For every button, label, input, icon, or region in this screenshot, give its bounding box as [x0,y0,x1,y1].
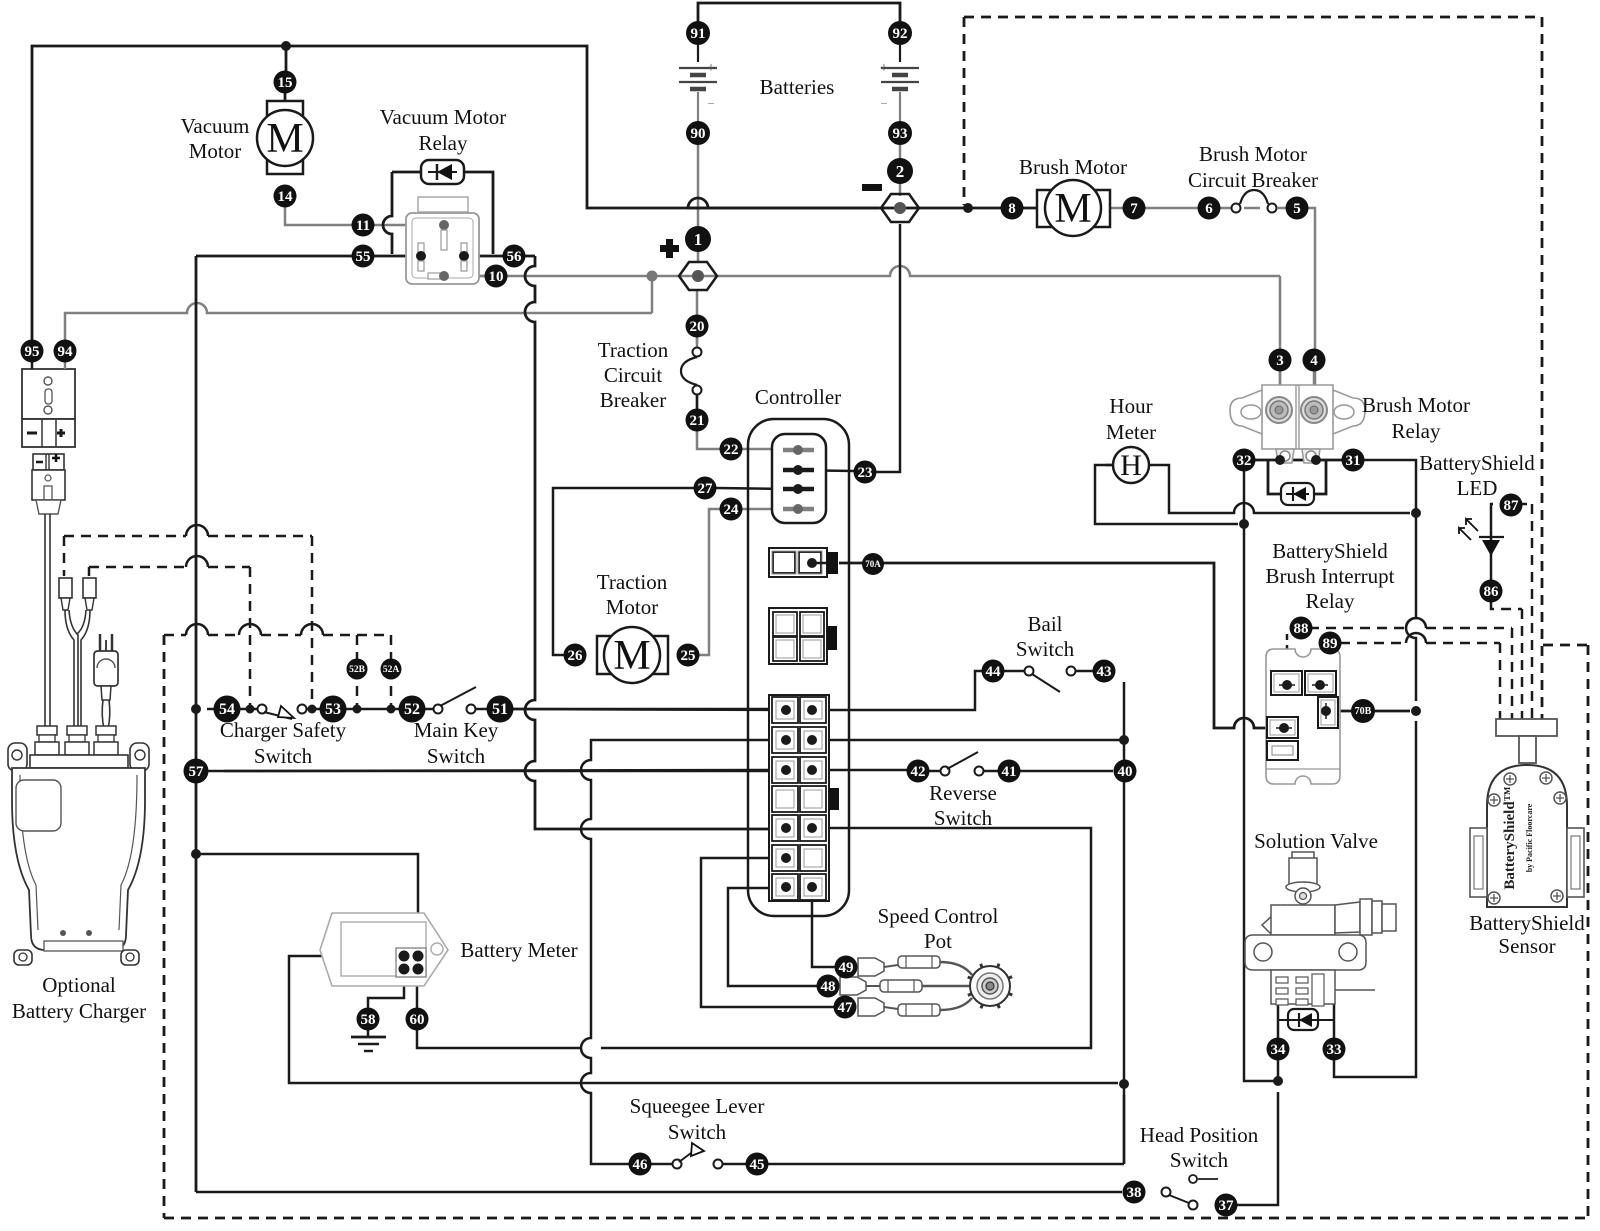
node 23 [854,461,877,484]
svg-text:34: 34 [1271,1042,1287,1058]
svg-text:41: 41 [1002,764,1017,780]
svg-text:92: 92 [893,26,908,42]
node 8 [1001,197,1024,220]
wire LED anode cathode [1490,512,1493,580]
wire traction motor 26 to 27 line [553,488,694,655]
svg-text:Charger Safety: Charger Safety [220,718,347,742]
wire bail riser 43-40-45 [1123,682,1126,1164]
svg-text:Brush Interrupt: Brush Interrupt [1266,564,1395,588]
hexagon connector negative node 2 [881,194,919,222]
squeegee lever switch [673,1160,682,1169]
charger right ear [130,743,149,771]
wire controller pin4 to 24 to 25 [699,509,786,655]
wire riser to head position 38 [1123,1095,1126,1164]
wire dashed relay 89 to sensor [1340,642,1406,645]
node 57 [184,759,209,784]
node 70A [862,553,884,575]
junction hour meter 32 riser [1239,519,1249,529]
junction 54 takeoff [191,704,201,714]
svg-text:5: 5 [1293,201,1301,217]
svg-text:40: 40 [1118,764,1133,780]
controller 2x7 connector cells [772,697,798,723]
speed pot wires to pot [940,962,972,975]
node 95 [21,340,44,363]
wire nodes 3,4 to brush relay terminals [1279,371,1282,398]
wire node 55 bus down the left side [195,256,198,1192]
wire riser segment 70B to solution valve 33 [1334,721,1416,1077]
wire controller row7R to 49 [812,888,835,967]
wire controller row6 to 47 [701,858,834,1007]
node 3 [1269,349,1292,372]
wire node 55 to relay pin [196,255,421,258]
wire reverse switch segments [929,770,941,773]
battery meter connector [396,948,426,977]
wire dashed charger D2 drop to safety switch [249,567,252,706]
wire charger safety switch row [207,708,262,711]
wire node 5 breaker [1244,207,1260,210]
charger terminal Y cable [65,610,74,729]
controller pin row 1 [783,448,814,453]
svg-text:+: + [707,60,715,76]
solution valve drawing [1292,852,1314,859]
svg-text:49: 49 [839,960,854,976]
battery 2 symbol [899,44,901,62]
svg-text:10: 10 [489,269,504,285]
brush relay pin dots [1275,455,1285,465]
wire node 31 to riser down to 33 [1364,460,1416,701]
svg-text:BatteryShield: BatteryShield [1419,451,1535,475]
charger plug [33,454,64,470]
node 20 [686,315,709,338]
charger body [12,768,145,950]
charger 94 95 stubs [31,362,34,369]
svg-text:Pot: Pot [924,929,952,953]
svg-text:54: 54 [219,701,235,718]
svg-text:BatteryShield: BatteryShield [1272,539,1388,563]
svg-text:37: 37 [1219,1198,1235,1214]
svg-text:Optional: Optional [42,973,116,997]
junction 31 riser hour meter [1411,508,1421,518]
wire 21-20 connectors [696,394,699,409]
svg-text:Battery Charger: Battery Charger [12,999,146,1023]
wire solution valve 33 wire [1333,1004,1336,1060]
svg-text:Traction: Traction [598,338,669,362]
node 10 [485,265,508,288]
svg-text:Motor: Motor [606,595,659,619]
svg-text:M: M [266,116,303,162]
svg-text:23: 23 [858,465,873,481]
svg-text:by Pacific Floorcare: by Pacific Floorcare [1525,803,1534,872]
wire node 32 to relay pins [1255,459,1280,462]
wire dashed charger D1 horizontal [64,535,186,538]
wire dashed jog from box to right edge [1543,644,1588,647]
node 93 [888,121,912,145]
wire battery top loop 91 92 [698,3,900,22]
node 15 [274,71,297,94]
node 55 [352,245,375,268]
node 37 [1215,1194,1238,1217]
hexagon connector positive node 1 [679,262,717,290]
wire hexagon1 down through traction breaker to node 22 [696,290,699,352]
speed pot terminal 48 [840,977,866,995]
node 22 [720,438,743,461]
wire node 56 down to controller row5 [469,255,507,258]
svg-text:Vacuum: Vacuum [181,114,250,138]
svg-text:52: 52 [404,701,420,718]
svg-text:Reverse: Reverse [929,781,997,805]
svg-text:Meter: Meter [1106,420,1156,444]
controller outer box [748,419,849,916]
wire dashed enclosure right edge near sensor [1587,645,1590,1218]
speed pot terminal 49 [858,958,884,976]
wire 70A from controller to relay coil [839,563,1284,728]
brush relay terminal 4 [1301,397,1327,423]
node 1 [685,226,711,252]
svg-text:46: 46 [633,1157,649,1173]
svg-text:Batteries: Batteries [760,75,835,99]
svg-text:7: 7 [1130,201,1138,217]
controller 2x2 connector [769,608,827,664]
node 41 [998,760,1021,783]
svg-text:Head Position: Head Position [1140,1123,1259,1147]
node 52B [347,659,368,680]
svg-text:Solution Valve: Solution Valve [1254,829,1378,853]
brush motor relay body [1262,385,1333,449]
svg-text:Switch: Switch [254,744,313,768]
wire dashed drop to 52B [356,635,359,706]
node 53 [320,696,347,723]
wire dashed charger D1 vertical to terminal [63,536,66,576]
svg-text:Relay: Relay [1306,589,1355,613]
wire dashed drop to 52A [390,635,393,706]
node 40 [1114,760,1137,783]
reverse switch [941,767,950,776]
node 21 [686,409,709,432]
svg-text:Hour: Hour [1109,394,1152,418]
node 26 [564,644,587,667]
node 49 [835,956,858,979]
node 91 [686,21,710,45]
svg-text:Circuit: Circuit [604,363,662,387]
charger safety 52B 52A taps [353,705,362,714]
wire breaker 5 corner down to node 4 [1285,208,1315,395]
wire gray return 94 bus [65,313,186,340]
controller 70A connector [769,548,827,577]
controller pin row 4 [783,507,814,512]
node 94 [54,340,77,363]
brush motor relay bracket [1230,390,1365,434]
node 33 [1323,1038,1346,1061]
wire hour meter left loop [1095,465,1238,524]
node 47 [834,996,857,1019]
charger feet [14,950,32,965]
wire hexagon1 bus corner down to node 3 [1279,276,1282,395]
svg-text:55: 55 [356,249,371,265]
svg-text:Vacuum Motor: Vacuum Motor [380,105,507,129]
node 89 [1319,632,1342,655]
wire controller row3 right to reverse 42 [812,769,907,772]
svg-text:60: 60 [410,1012,425,1028]
plus symbol [660,245,679,252]
charger battery cable [44,514,46,729]
wire solution valve 34 wire [1277,1004,1280,1081]
node 48 [817,975,840,998]
wire battery meter feed from bus [196,854,418,950]
svg-text:1: 1 [694,230,703,249]
wire controller row1 right to bail 44 [812,671,982,710]
svg-text:47: 47 [838,1000,854,1016]
wire controller row7L to 48 [728,888,817,986]
junction solution valve 34 [1273,1076,1283,1086]
node 11 [352,214,375,237]
svg-text:Sensor: Sensor [1498,934,1555,958]
battery 1 symbol [697,44,699,62]
svg-text:87: 87 [1504,498,1520,514]
wire squeegee 45 to bail riser [768,1163,1124,1166]
batteryshield sensor connector block [1496,719,1557,736]
junction meter line riser [1119,1079,1129,1089]
svg-text:24: 24 [724,502,740,518]
wire hexagon1 bus horizontal [452,266,1280,276]
wire vacuum motor 14 to relay pin 11 [285,207,438,225]
wire dashed enclosure top-right box top edge [964,16,1542,19]
wire 70B from relay [1331,710,1410,713]
wire controller row1 to key switch 51 [511,709,786,710]
wire vacuum relay diode loop right [464,172,493,254]
junction battery meter takeoff [191,849,201,859]
batteryshield sensor clips [1470,828,1487,897]
wire traction breaker 21 drop [696,352,699,356]
svg-text:52B: 52B [349,665,366,675]
main key switch [434,705,443,714]
batteryshield sensor body [1487,765,1567,907]
charger left ear [8,743,27,771]
wire node 20 hex stub [696,337,699,344]
wire controller pin2 to node 23 [786,470,854,471]
node 60 [406,1008,429,1031]
node 43 [1093,660,1116,683]
svg-text:89: 89 [1323,636,1338,652]
wire top-left bus from 95 up across to batteries box [32,46,879,340]
svg-text:Controller: Controller [755,385,841,409]
vacuum motor M1 [267,101,303,174]
svg-text:H: H [1120,449,1142,482]
wire dashed enclosure horizontal segment [164,634,186,637]
svg-text:M: M [1054,186,1091,232]
svg-text:8: 8 [1008,201,1016,217]
node 88 [1290,617,1313,640]
node 42 [907,760,930,783]
node 7 [1123,197,1146,220]
svg-text:Motor: Motor [189,139,242,163]
svg-text:56: 56 [507,249,523,265]
batteryshield sensor screws [1504,773,1516,785]
svg-text:44: 44 [986,664,1002,680]
wire dashed charger D2 vertical to terminal [88,567,91,576]
brush relay diode [1281,483,1314,505]
vacuum relay pin 11 [439,220,449,230]
svg-text:48: 48 [821,979,836,995]
wire meter left pin to riser [289,956,1118,1083]
wire head position 37 to solution valve junction [1237,1092,1278,1205]
svg-text:LED: LED [1457,476,1498,500]
wire meter 60 pin [416,977,419,1008]
node 86 [1480,580,1503,603]
svg-text:Switch: Switch [934,806,993,830]
svg-text:38: 38 [1127,1185,1142,1201]
junction top bus / vacuum motor [281,41,291,51]
wire dashed main enclosure left edge [163,635,166,1218]
svg-text:Squeegee Lever: Squeegee Lever [630,1094,765,1118]
svg-text:52A: 52A [383,665,400,675]
node 70B [1351,699,1375,723]
wire controller row2 right to riser [812,739,1124,742]
svg-text:Battery Meter: Battery Meter [460,938,577,962]
vacuum motor relay body [418,197,468,212]
wire hour meter H circle leads [1106,464,1114,467]
node 44 [982,660,1005,683]
svg-text:−: − [880,96,887,111]
wire hexagon2 to brush motor node 8 [688,198,1040,208]
speed pot body [970,966,1010,1006]
junction node8 bus dashed box [963,203,973,213]
wire bail 43 from switch [1075,670,1093,673]
wire 57 row3 long segment [224,770,786,771]
svg-text:51: 51 [492,701,508,718]
svg-text:26: 26 [568,648,584,664]
svg-text:90: 90 [691,126,706,142]
vacuum motor relay diode [421,160,464,184]
node 56 [503,245,526,268]
node 51 [487,696,514,723]
wire meter 58 pin to ground [368,977,404,1008]
speed pot terminal 47 [858,998,884,1016]
svg-text:20: 20 [690,319,705,335]
svg-text:Brush Motor: Brush Motor [1362,393,1470,417]
controller pin row 2 [783,468,814,473]
svg-text:95: 95 [25,344,40,360]
svg-text:70B: 70B [1355,706,1372,717]
wire controller row5 right loop to meter 60 [601,828,1091,1048]
charger spade terminal B [83,578,96,598]
wire meter 60 loop left part [417,1030,581,1048]
wire bail 44 to contact [1004,670,1025,673]
wire dashed charger D2 horizontal [89,566,186,569]
svg-text:Traction: Traction [597,570,668,594]
wire relay pin10 gray [449,275,492,278]
svg-text:57: 57 [189,764,205,780]
node 45 [746,1153,769,1176]
wire dashed LED 87 to sensor [1491,504,1532,512]
wire 32 riser to solution valve [1244,471,1278,1081]
wire squeegee switch segments [651,1163,672,1166]
node 24 [720,498,743,521]
svg-text:Switch: Switch [1016,637,1075,661]
svg-text:Brush Motor: Brush Motor [1019,155,1127,179]
wire node 57 to controller row3 [207,770,786,773]
node 25 [677,644,700,667]
svg-text:22: 22 [724,442,739,458]
node 46 [629,1153,652,1176]
ground symbol below 58 [367,1030,370,1037]
node 2 [887,158,913,184]
charger spade terminal A [59,578,72,598]
wire hexagon2 down to node 23 wire [876,224,900,472]
wire dashed enclosure left edge to battery negative bus [963,17,966,205]
svg-text:Switch: Switch [427,744,486,768]
svg-text:43: 43 [1097,664,1112,680]
node 52 [399,696,426,723]
svg-text:25: 25 [681,648,696,664]
wire brush relay diode loop [1268,461,1281,494]
svg-text:+: + [880,60,888,76]
wire vacuum motor 15 stub [285,46,288,71]
charger AC plug [99,634,102,655]
interrupt relay terminal boxes [1271,671,1302,695]
svg-text:94: 94 [58,344,74,360]
head position switch [1162,1188,1171,1197]
wire battery 93 to node 2 to hexagon 2 [899,144,902,196]
batteryshield sensor stem [1519,736,1536,763]
node 6 [1198,197,1221,220]
node 27 [694,477,717,500]
wire brush motor 7 to 6 [1110,207,1236,210]
svg-text:Breaker: Breaker [600,388,666,412]
svg-text:53: 53 [325,701,341,718]
node 87 [1500,494,1523,517]
wire vacuum relay diode loop left [392,171,421,174]
junction 70B riser [1411,706,1421,716]
svg-text:32: 32 [1237,453,1252,469]
brush relay terminal 3 [1266,397,1292,423]
svg-text:42: 42 [911,764,926,780]
svg-text:15: 15 [278,75,293,91]
batteryshield LED symbol [1479,536,1504,538]
node 5 [1286,197,1309,220]
solution valve diode [1288,1009,1318,1030]
svg-text:6: 6 [1205,201,1213,217]
vacuum relay pin 55 [418,243,424,253]
wire dashed charger D1 drop to safety switch [311,536,314,706]
charger safety switch contacts [246,705,255,714]
node 38 [1123,1181,1146,1204]
brush motor circuit breaker [1232,204,1241,213]
svg-text:14: 14 [278,189,294,205]
controller pin row 3 [783,487,814,492]
svg-text:Switch: Switch [668,1120,727,1144]
svg-text:91: 91 [691,26,706,42]
node 4 [1303,349,1326,372]
wire battery 90 to hexagon 1 [697,144,700,263]
node 32 [1233,449,1256,472]
svg-text:Bail: Bail [1028,612,1063,636]
svg-text:88: 88 [1294,621,1309,637]
svg-text:11: 11 [356,218,370,234]
brush motor M3 [1037,190,1110,227]
battery meter plate [320,913,448,986]
junction row2 riser [1119,735,1129,745]
svg-text:58: 58 [361,1012,376,1028]
svg-text:27: 27 [698,481,714,497]
controller 2x7 tab [829,788,839,810]
traction motor M2 [597,636,668,674]
wire dashed relay 88 to sensor [1292,627,1406,630]
svg-text:Switch: Switch [1170,1148,1229,1172]
wire node21 to node22 to controller pin1 [697,432,786,449]
node 14 [274,185,297,208]
svg-text:Speed Control: Speed Control [878,904,999,928]
svg-text:93: 93 [893,126,908,142]
